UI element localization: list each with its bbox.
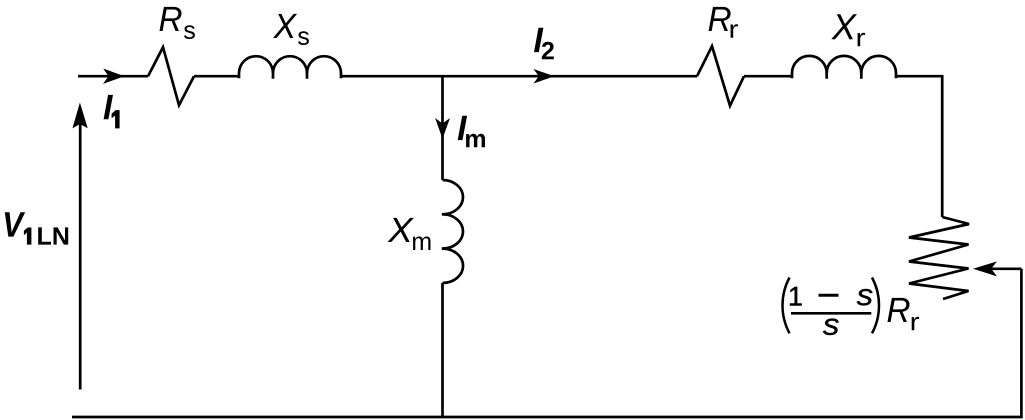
label R_r (709, 7, 738, 38)
arrowhead I2 (534, 69, 555, 84)
inductor X_s junction ticks (273, 73, 307, 79)
minus sign in numerator (819, 294, 839, 297)
fraction bar (791, 312, 871, 315)
inductor X_m junction ticks (442, 214, 450, 248)
label I_1 (104, 95, 120, 128)
label X_s (273, 14, 309, 45)
wire right vertical down to variable resistor (941, 75, 944, 217)
arrowhead V1LN (up) (72, 103, 87, 129)
wire top-left input segment (78, 75, 148, 78)
inductor X_m (443, 180, 464, 283)
label V_1LN (5, 212, 68, 244)
label X_m (388, 218, 431, 250)
wire right rail vertical (1020, 269, 1023, 417)
left parenthesis of fraction (783, 278, 790, 334)
label I_2 (534, 28, 554, 60)
wire X_r to top-right corner (896, 75, 941, 78)
fraction numerator s (857, 289, 873, 305)
inductor X_s (239, 56, 341, 78)
resistor R_s (148, 47, 194, 105)
wire middle branch lower (441, 283, 444, 417)
resistor R_r (697, 46, 744, 105)
wire wiper to right rail (990, 267, 1021, 270)
variable resistor (1-s)/s Rr zigzag (909, 217, 969, 299)
right parenthesis of fraction (872, 278, 879, 334)
arrowhead Im (down) (435, 118, 450, 139)
fraction denominator s (823, 319, 839, 335)
wire R_r to X_r (744, 75, 792, 78)
fraction numerator 1 (790, 287, 802, 306)
label R_s (160, 7, 195, 39)
label X_r (831, 14, 865, 46)
wire bottom rail (72, 416, 1023, 419)
wire middle branch upper (441, 76, 444, 180)
wire X_s to node to R_r (341, 75, 697, 78)
voltage arrow V1LN shaft (79, 121, 82, 390)
inductor X_r (792, 56, 896, 78)
arrowhead wiper (left) (973, 261, 997, 276)
arrowhead input I1 (103, 69, 124, 84)
label R_r of fraction (888, 298, 920, 330)
inductor X_r junction ticks (827, 73, 862, 79)
wire R_s to X_s (194, 75, 239, 78)
label I_m (458, 116, 485, 148)
